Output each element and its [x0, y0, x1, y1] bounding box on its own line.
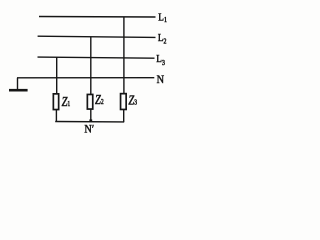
wire V2 from L2 to Z2 — [90, 37, 92, 94]
svg-text:L2: L2 — [158, 32, 167, 45]
wire Z3 bottom to N' — [123, 110, 125, 122]
wire V3 from L1 to Z3 — [123, 17, 125, 94]
svg-text:Z1: Z1 — [62, 93, 71, 109]
wire line L3 — [38, 57, 155, 58]
wire V1 from L3 to Z1 — [56, 57, 58, 93]
svg-text:Z3: Z3 — [128, 92, 137, 108]
resistor Z1 — [53, 94, 58, 110]
resistor Z2 — [87, 94, 92, 109]
svg-text:N: N — [157, 73, 164, 86]
wire line L2 — [38, 36, 156, 37]
svg-text:Z2: Z2 — [95, 92, 104, 108]
svg-text:L1: L1 — [158, 12, 167, 24]
wire ground drop — [17, 78, 19, 89]
wire Z2 bottom to N' — [90, 109, 92, 122]
wire line L1 — [39, 16, 156, 19]
junction V2 at N' — [89, 119, 92, 121]
wire line N — [17, 77, 154, 79]
ground — [9, 89, 28, 92]
wire Z1 bottom to N' — [55, 110, 57, 122]
svg-text:N′: N′ — [84, 123, 94, 136]
svg-text:L3: L3 — [156, 53, 165, 67]
wire line N' — [55, 121, 124, 123]
resistor Z3 — [121, 94, 127, 110]
